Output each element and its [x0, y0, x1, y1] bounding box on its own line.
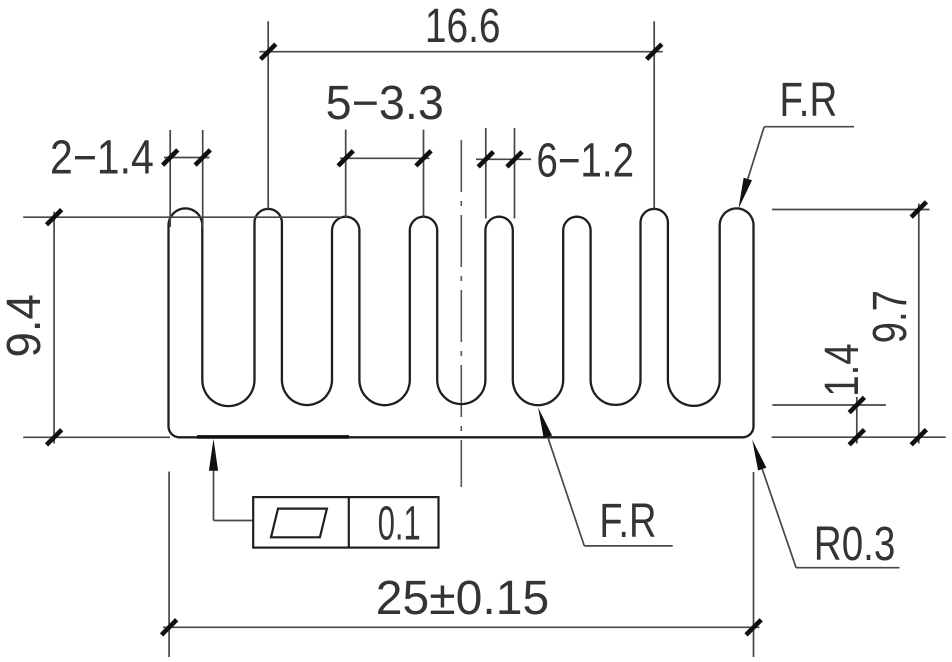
svg-text:R0.3: R0.3: [814, 518, 896, 571]
heatsink extruded profile outline: [169, 208, 754, 437]
flatness symbol (parallelogram): [271, 509, 327, 538]
svg-text:9.7: 9.7: [864, 290, 917, 343]
svg-text:16.6: 16.6: [425, 0, 501, 53]
svg-text:9.4: 9.4: [0, 294, 51, 357]
dimension 6-1.2 (fin thickness): [485, 128, 487, 219]
dimension 2-1.4 (wall thickness): [169, 130, 171, 227]
svg-text:F.R: F.R: [780, 74, 838, 127]
dimension 25±0.15 (overall width): [168, 472, 170, 658]
leader F.R (bottom, channel root radius): [584, 545, 672, 547]
dimension 5-3.3 (fin pitch): [345, 130, 347, 218]
svg-text:0.1: 0.1: [378, 498, 421, 551]
svg-text:5−3.3: 5−3.3: [326, 77, 444, 130]
bottom extension line (right side): [772, 436, 946, 438]
svg-text:2−1.4: 2−1.4: [50, 132, 154, 185]
svg-text:1.4: 1.4: [816, 343, 869, 396]
svg-text:F.R: F.R: [599, 495, 656, 548]
dimension 9.4 (short fin height): [23, 216, 342, 218]
dimension 9.7 (tall fin height): [772, 209, 930, 211]
leader F.R (top right, fin tip radius): [764, 126, 854, 128]
leader R0.3 (base corner radius): [796, 567, 899, 569]
dimension 16.6: extension lines, dimension line, ticks, text: [267, 21, 269, 209]
flatness tolerance leader arrow: [213, 470, 215, 521]
centerline (axis of symmetry): [460, 140, 462, 487]
dimension 1.4 (base thickness): [772, 404, 886, 406]
svg-text:6−1.2: 6−1.2: [536, 135, 634, 188]
svg-text:25±0.15: 25±0.15: [376, 572, 549, 625]
feature control frame box: [253, 497, 438, 547]
datum emphasis on bottom edge: [197, 435, 349, 439]
